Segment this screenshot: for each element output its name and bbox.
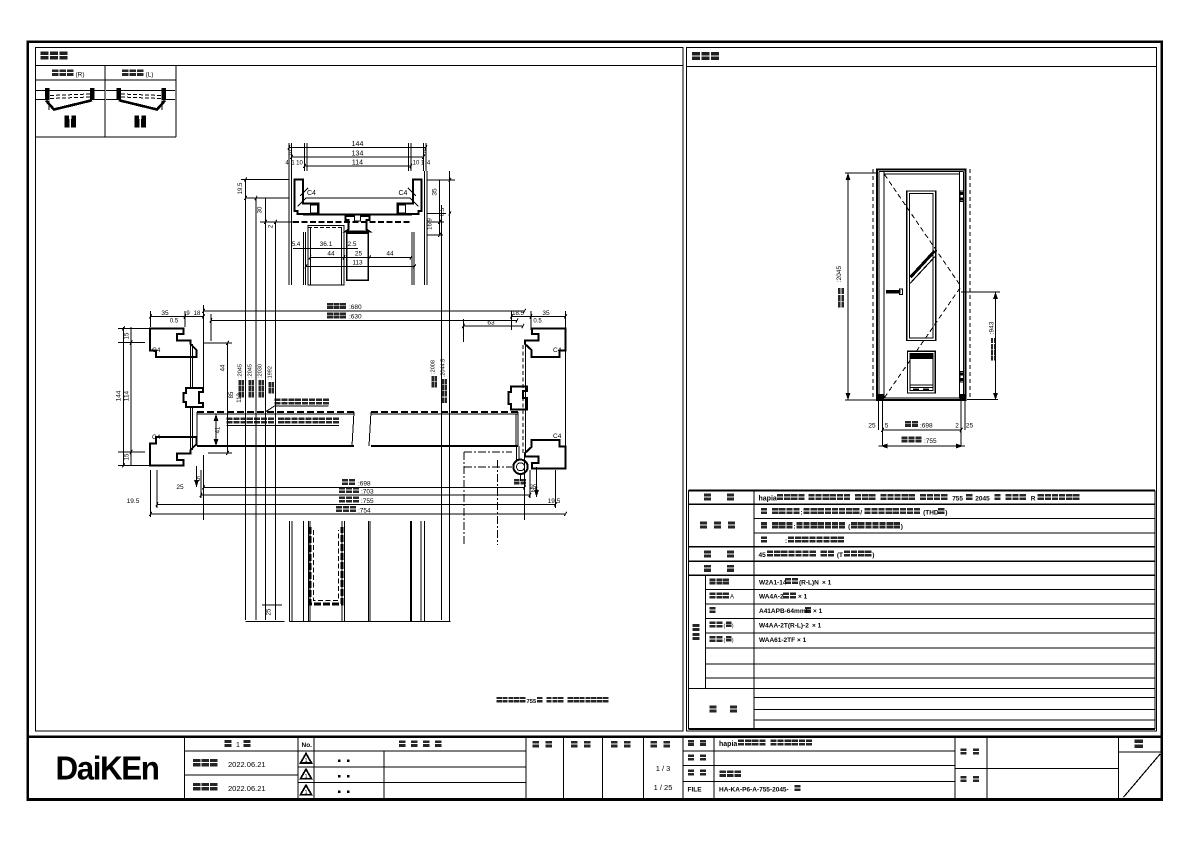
plan dim extension lines xyxy=(203,305,205,388)
dim extension verticals top xyxy=(288,143,290,171)
svg-text:25: 25 xyxy=(966,423,974,430)
svg-text:C4: C4 xyxy=(152,434,161,441)
door leaf plan top thin line xyxy=(197,413,354,415)
svg-text:1: 1 xyxy=(304,790,307,796)
svg-text:25: 25 xyxy=(355,251,363,258)
svg-text:): ) xyxy=(872,552,874,559)
spec table frame xyxy=(689,490,1156,492)
front: bottom dim 755 xyxy=(902,436,908,442)
svg-text:15: 15 xyxy=(125,453,131,460)
floor line xyxy=(246,621,285,623)
svg-text::: : xyxy=(785,538,787,545)
svg-text:2: 2 xyxy=(955,423,959,430)
door stop dashed line xyxy=(293,221,410,223)
svg-text:W2A1-14: W2A1-14 xyxy=(759,579,787,586)
center door stop hat profile xyxy=(346,216,370,232)
svg-text:0.5: 0.5 xyxy=(533,319,542,325)
svg-text::2044.5: :2044.5 xyxy=(440,359,446,377)
content 三面図 xyxy=(720,770,727,777)
svg-text:2022.06.21: 2022.06.21 xyxy=(228,784,266,793)
svg-text:(: ( xyxy=(724,624,726,630)
制定日 row xyxy=(193,759,201,767)
svg-text::698: :698 xyxy=(358,481,371,488)
door leaf plan top edge dashed thick xyxy=(197,411,354,413)
label 仕上げ xyxy=(700,522,707,529)
仕上げ row1 扉パネル:ポリサンドシート xyxy=(761,508,767,514)
svg-text:× 1: × 1 xyxy=(813,608,823,615)
svg-text:30: 30 xyxy=(258,206,264,213)
svg-text::755: :755 xyxy=(924,438,937,445)
label 備考 xyxy=(710,706,717,713)
bottom right ext lines xyxy=(524,455,526,520)
headers 承認 確認 作成 縮尺 xyxy=(533,741,540,748)
front: wall dashed lines xyxy=(872,169,874,400)
svg-text:0.5: 0.5 xyxy=(440,207,446,216)
svg-text:35: 35 xyxy=(161,310,169,317)
svg-text::: : xyxy=(801,510,803,517)
svg-text:hapia: hapia xyxy=(759,496,777,503)
svg-text:× 1: × 1 xyxy=(822,579,832,586)
svg-text:C4: C4 xyxy=(399,190,408,197)
dim 144 head overall xyxy=(289,147,426,149)
right rotated height dim lines xyxy=(441,205,443,620)
glass panel U dashed thick xyxy=(310,527,342,604)
front: frame outer xyxy=(877,170,966,401)
label 要式 xyxy=(704,494,711,501)
hinge centerlines dash-dot xyxy=(464,466,512,468)
svg-text:144: 144 xyxy=(352,141,364,148)
dim 19.5 rotated top-left xyxy=(245,180,247,621)
svg-text:FILE: FILE xyxy=(688,787,703,794)
svg-text:1 / 3: 1 / 3 xyxy=(656,764,671,773)
dim 134 xyxy=(292,156,424,158)
door leaf plan bottom edge xyxy=(197,445,354,447)
svg-text:W4AA-2T(R-L)-2: W4AA-2T(R-L)-2 xyxy=(759,623,809,630)
bottom dim 755 xyxy=(339,497,345,503)
svg-text:(: ( xyxy=(724,638,726,644)
svg-text:C4: C4 xyxy=(152,347,161,354)
cell label 左吊元(L) xyxy=(122,70,129,77)
品番 row labels xyxy=(710,578,716,584)
front: pet door outer xyxy=(907,351,935,393)
svg-text:19.5: 19.5 xyxy=(238,182,244,194)
door stile box below stopper xyxy=(347,233,369,280)
sill table frame xyxy=(104,66,106,138)
svg-text:): ) xyxy=(732,638,734,644)
svg-text:× 1: × 1 xyxy=(812,623,822,630)
svg-text:25: 25 xyxy=(176,484,184,491)
svg-text:114: 114 xyxy=(124,390,131,401)
front: pet door bottom band xyxy=(910,384,933,386)
svg-text:44: 44 xyxy=(327,251,335,258)
svg-text:1: 1 xyxy=(236,742,240,749)
svg-text::: : xyxy=(793,524,795,531)
spec 品番 sub divider xyxy=(705,575,707,688)
svg-text:35: 35 xyxy=(542,310,550,317)
svg-text:144: 144 xyxy=(116,390,123,401)
dim 35 rotated xyxy=(449,171,451,622)
rev history header 改訂履歴 xyxy=(399,740,406,747)
head board bottom thick xyxy=(303,213,412,215)
svg-text:hapia: hapia xyxy=(719,741,737,748)
svg-text:C4: C4 xyxy=(553,433,562,440)
svg-text::2008: :2008 xyxy=(430,360,436,374)
svg-text:DaiKEn: DaiKEn xyxy=(56,750,159,787)
svg-text:A41APB-64mmF: A41APB-64mmF xyxy=(759,608,810,615)
svg-text:10: 10 xyxy=(296,161,303,167)
svg-text:35: 35 xyxy=(432,188,439,196)
svg-text:114: 114 xyxy=(352,160,363,167)
仕上げ row3 枠:オレフィンシート xyxy=(761,536,767,542)
svg-text:No.: No. xyxy=(302,742,313,749)
svg-text:25: 25 xyxy=(868,423,876,430)
chamfer leader C4 left head xyxy=(300,188,308,196)
svg-text:(T: (T xyxy=(837,552,843,559)
front: pet door top band xyxy=(910,354,933,360)
svg-text:45: 45 xyxy=(759,552,767,559)
sill section right-hung (R) xyxy=(36,90,105,92)
svg-text:): ) xyxy=(945,510,947,517)
latch strike mortise xyxy=(184,388,204,407)
svg-text:19.5: 19.5 xyxy=(127,498,140,505)
note: protrusion note 凸部は全周を示す xyxy=(275,399,281,405)
wall lines right of head xyxy=(424,171,426,285)
svg-text:85: 85 xyxy=(229,391,235,398)
svg-text:WA4A-2: WA4A-2 xyxy=(759,594,784,601)
svg-text::943: :943 xyxy=(989,321,996,334)
svg-text:5.4: 5.4 xyxy=(292,242,301,248)
svg-text:2022.06.21: 2022.06.21 xyxy=(228,760,266,769)
right header underline xyxy=(687,66,1157,68)
svg-text:19.5: 19.5 xyxy=(548,498,561,505)
front: glass lite inner xyxy=(910,194,934,338)
revision triangles xyxy=(301,754,312,764)
svg-text:): ) xyxy=(901,524,903,531)
svg-text::2030: :2030 xyxy=(257,364,263,378)
right jamb bottom C profile xyxy=(525,440,566,469)
dim 114 xyxy=(305,165,412,167)
front: frame inner lines xyxy=(878,172,880,399)
front: glass lite outer xyxy=(907,191,936,341)
bottom dim 754 xyxy=(336,506,342,512)
svg-text::754: :754 xyxy=(358,508,371,515)
svg-text:113: 113 xyxy=(237,393,243,403)
svg-text::630: :630 xyxy=(349,314,362,321)
hinge leaf connection xyxy=(516,446,518,460)
sill section verticals xyxy=(289,521,291,622)
svg-text:2045: 2045 xyxy=(975,496,990,503)
svg-text:(L): (L) xyxy=(146,72,154,79)
svg-text:5: 5 xyxy=(885,423,889,430)
right jamb verticals + door edge xyxy=(522,345,524,455)
front: lever handle xyxy=(886,290,901,294)
svg-text:(R-L)N: (R-L)N xyxy=(799,579,819,586)
title block frame xyxy=(28,736,1163,738)
label 品番 vertical xyxy=(693,624,700,631)
spec label col divider xyxy=(753,491,755,730)
svg-text:R: R xyxy=(1031,496,1036,503)
labels 作名 組員 xyxy=(961,749,967,755)
svg-text:2.5: 2.5 xyxy=(347,241,356,248)
svg-text:113: 113 xyxy=(352,260,363,267)
svg-text::755: :755 xyxy=(361,498,374,505)
chamfer leader C4 right head xyxy=(408,188,416,196)
front: bottom ext verticals xyxy=(878,400,880,430)
svg-text::703: :703 xyxy=(361,489,374,496)
left jamb verticals xyxy=(190,344,192,388)
label 色柄 xyxy=(704,565,711,572)
svg-text:A: A xyxy=(730,595,734,601)
第1版 xyxy=(225,740,232,747)
head jamb right profile xyxy=(398,180,422,215)
front: swing dashed lines xyxy=(885,175,962,287)
front: glass reflection diagonals xyxy=(911,251,935,277)
svg-text:16.9: 16.9 xyxy=(428,218,434,230)
svg-text:15: 15 xyxy=(125,332,131,339)
right panel title 正面図 xyxy=(692,52,700,60)
header underline xyxy=(36,65,684,67)
svg-text:): ) xyxy=(732,624,734,630)
rev history dots xyxy=(338,760,340,762)
latch bolt plate right xyxy=(509,387,528,410)
svg-text:10: 10 xyxy=(413,161,420,167)
left panel inner frame xyxy=(36,48,684,732)
hinge label + 25 dim xyxy=(514,479,520,485)
svg-text:(R): (R) xyxy=(76,72,85,79)
svg-text:WAA61-2TF: WAA61-2TF xyxy=(759,637,795,644)
front: pet door inner xyxy=(910,354,933,391)
section view title 断面図 xyxy=(41,52,49,60)
svg-text:755: 755 xyxy=(527,699,537,705)
svg-text::698: :698 xyxy=(920,423,933,430)
front: dim 943 right xyxy=(995,292,997,400)
svg-text:0.5: 0.5 xyxy=(170,319,179,325)
page diagonal xyxy=(1124,754,1161,797)
svg-text:× 1: × 1 xyxy=(797,637,807,644)
sill section left-hung (L) xyxy=(106,90,175,92)
label 把手 xyxy=(704,551,711,558)
labels 名番 品番 図名 FILE xyxy=(688,740,694,746)
rev area rows xyxy=(185,750,299,752)
頁 col xyxy=(1119,751,1162,753)
svg-text:44: 44 xyxy=(386,251,394,258)
svg-text:HA-KA-P6-A-755-2045-: HA-KA-P6-A-755-2045- xyxy=(719,786,789,793)
svg-text:1: 1 xyxy=(304,758,307,764)
svg-text:1: 1 xyxy=(304,774,307,780)
head jamb left profile xyxy=(295,180,319,215)
leaf verticals below head xyxy=(303,232,305,285)
leaf break marks xyxy=(352,412,354,446)
仕上げ row2 スチレン系樹脂 xyxy=(761,522,767,528)
leaf left end vertical xyxy=(196,412,198,446)
door leaf top box xyxy=(308,226,344,286)
bottom dim 703 xyxy=(339,487,345,493)
leaf right end verticals xyxy=(517,412,519,446)
bottom dim 698 xyxy=(342,479,348,485)
note: flush structure packing note xyxy=(227,418,233,424)
cell label 右吊元(R) xyxy=(52,70,59,77)
svg-text:36.1: 36.1 xyxy=(320,241,333,248)
svg-text:× 1: × 1 xyxy=(798,594,808,601)
spec row lines xyxy=(689,503,1156,505)
svg-text:134: 134 xyxy=(352,151,364,158)
left jamb plan profile (latch side) xyxy=(150,329,197,358)
svg-text:C4: C4 xyxy=(553,347,562,354)
svg-text::2045: :2045 xyxy=(247,364,253,378)
svg-text:63: 63 xyxy=(487,320,495,327)
left dim 144/114/15 xyxy=(123,327,125,466)
hinge knuckle circle xyxy=(513,460,527,474)
svg-text:C4: C4 xyxy=(307,190,316,197)
svg-text:25: 25 xyxy=(267,608,273,615)
name rows lines xyxy=(683,750,955,752)
head board top line xyxy=(306,197,410,199)
svg-text:(THD: (THD xyxy=(923,510,939,517)
svg-text:755: 755 xyxy=(952,496,963,503)
svg-text:/: / xyxy=(860,510,862,517)
wall lines left of head xyxy=(288,171,290,285)
left jamb bottom C profile xyxy=(150,437,197,466)
svg-text:25: 25 xyxy=(530,485,537,491)
svg-text::2045: :2045 xyxy=(836,265,843,282)
front: bottom posts xyxy=(877,394,884,401)
svg-text::2045: :2045 xyxy=(237,364,243,378)
改訂日 row xyxy=(193,783,201,791)
right panel inner frame xyxy=(687,48,1157,732)
front: hinge bottom xyxy=(960,371,964,382)
head board end chamfers xyxy=(298,198,307,207)
right jamb plan profile (hinge side) xyxy=(525,329,566,358)
bottom right note ※開口寸法755... xyxy=(497,697,502,702)
front: height dim 2045 xyxy=(847,173,849,400)
svg-text::680: :680 xyxy=(349,304,362,311)
svg-text:44: 44 xyxy=(221,364,227,371)
svg-text:1 / 25: 1 / 25 xyxy=(654,783,673,792)
svg-text::1992: :1992 xyxy=(267,366,273,380)
title verticals xyxy=(184,737,186,799)
front: hinge top xyxy=(960,191,964,202)
